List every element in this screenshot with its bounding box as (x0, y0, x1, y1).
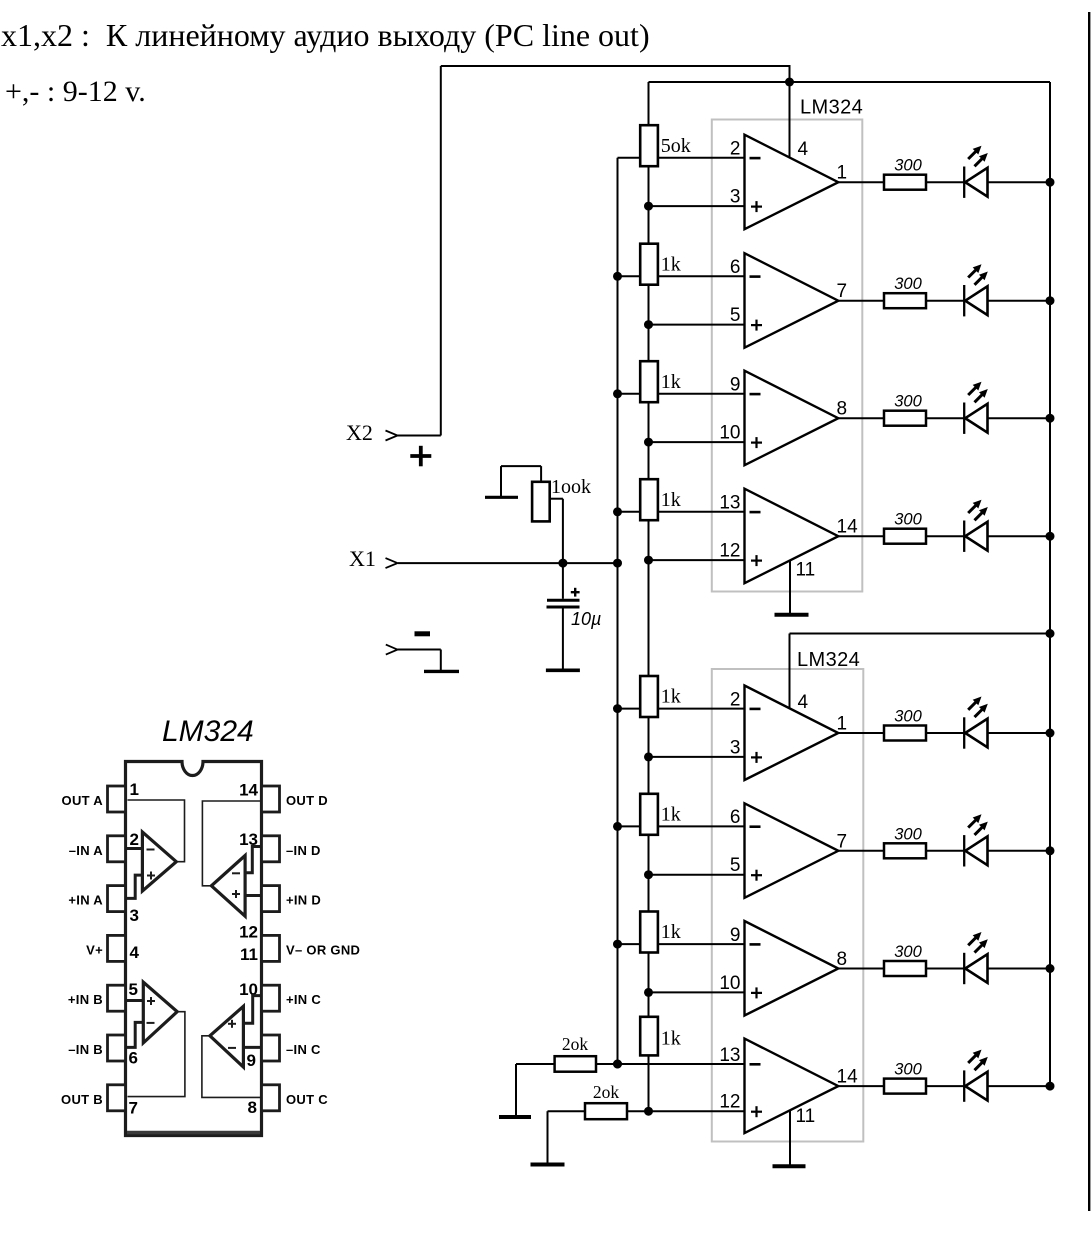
svg-text:300: 300 (894, 275, 922, 293)
svg-text:13: 13 (719, 1045, 740, 1066)
svg-text:4: 4 (130, 943, 140, 962)
svg-text:14: 14 (837, 517, 859, 538)
svg-text:7: 7 (129, 1099, 138, 1118)
svg-text:5: 5 (730, 855, 741, 876)
svg-text:+,- : 9-12 v.: +,- : 9-12 v. (5, 75, 146, 108)
svg-text:2ok: 2ok (593, 1082, 620, 1102)
svg-text:3: 3 (730, 737, 741, 758)
svg-text:–IN A: –IN A (69, 843, 104, 858)
svg-text:5ok: 5ok (661, 135, 691, 157)
svg-text:2: 2 (130, 830, 139, 849)
svg-text:1: 1 (130, 780, 139, 799)
svg-text:+IN B: +IN B (68, 992, 103, 1007)
svg-text:LM324: LM324 (797, 649, 860, 671)
svg-text:2: 2 (730, 139, 741, 160)
svg-text:12: 12 (239, 923, 258, 942)
svg-text:V– OR GND: V– OR GND (286, 942, 360, 957)
svg-text:10: 10 (719, 423, 740, 444)
svg-text:LM324: LM324 (162, 715, 254, 748)
svg-text:–IN D: –IN D (286, 843, 321, 858)
svg-text:3: 3 (130, 906, 139, 925)
svg-text:14: 14 (239, 781, 258, 800)
svg-text:14: 14 (837, 1067, 859, 1088)
svg-text:6: 6 (730, 807, 741, 828)
svg-text:X2: X2 (346, 420, 373, 445)
svg-text:300: 300 (894, 943, 922, 961)
svg-text:2: 2 (730, 689, 741, 710)
svg-text:7: 7 (837, 831, 848, 852)
svg-text:1ook: 1ook (551, 476, 591, 498)
svg-text:1k: 1k (661, 371, 681, 393)
svg-text:7: 7 (837, 281, 848, 302)
svg-text:–IN B: –IN B (68, 1042, 103, 1057)
svg-text:+IN D: +IN D (286, 893, 321, 908)
svg-text:1k: 1k (661, 803, 681, 825)
svg-text:LM324: LM324 (800, 97, 863, 119)
svg-text:1k: 1k (661, 253, 681, 275)
svg-text:1k: 1k (661, 1028, 681, 1050)
svg-text:OUT B: OUT B (61, 1092, 103, 1107)
svg-text:8: 8 (248, 1098, 257, 1117)
svg-text:8: 8 (837, 949, 848, 970)
svg-text:4: 4 (798, 139, 809, 160)
svg-text:11: 11 (240, 945, 258, 964)
svg-text:300: 300 (894, 157, 922, 175)
svg-text:1k: 1k (661, 686, 681, 708)
svg-text:OUT D: OUT D (286, 793, 328, 808)
svg-text:5: 5 (730, 305, 741, 326)
svg-text:300: 300 (894, 708, 922, 726)
svg-text:10µ: 10µ (571, 609, 601, 629)
svg-text:11: 11 (796, 560, 816, 581)
svg-text:2ok: 2ok (562, 1034, 589, 1054)
svg-text:1k: 1k (661, 489, 681, 511)
svg-text:4: 4 (798, 692, 809, 713)
svg-text:1: 1 (837, 714, 848, 735)
svg-text:300: 300 (894, 825, 922, 843)
svg-text:3: 3 (730, 187, 741, 208)
svg-text:9: 9 (247, 1051, 256, 1070)
svg-text:300: 300 (894, 1061, 922, 1079)
svg-text:–IN C: –IN C (286, 1042, 321, 1057)
svg-text:12: 12 (719, 1092, 740, 1113)
svg-text:V+: V+ (86, 942, 103, 957)
svg-text:6: 6 (730, 257, 741, 278)
svg-text:300: 300 (894, 511, 922, 529)
svg-text:5: 5 (129, 980, 138, 999)
svg-text:9: 9 (730, 375, 741, 396)
svg-text:X1: X1 (349, 546, 376, 571)
svg-text:1k: 1k (661, 921, 681, 943)
svg-text:1: 1 (837, 163, 848, 184)
svg-text:+IN C: +IN C (286, 992, 321, 1007)
svg-text:6: 6 (129, 1049, 138, 1068)
svg-text:12: 12 (719, 541, 740, 562)
svg-text:+IN A: +IN A (68, 893, 103, 908)
svg-text:10: 10 (719, 973, 740, 994)
svg-text:OUT A: OUT A (62, 793, 104, 808)
svg-text:x1,x2 : К линейному аудио вых: x1,x2 : К линейному аудио выходу (PC lin… (1, 17, 650, 53)
svg-text:13: 13 (719, 493, 740, 514)
svg-text:8: 8 (837, 399, 848, 420)
svg-text:300: 300 (894, 393, 922, 411)
svg-text:11: 11 (796, 1106, 816, 1127)
svg-text:OUT C: OUT C (286, 1092, 328, 1107)
svg-text:9: 9 (730, 925, 741, 946)
